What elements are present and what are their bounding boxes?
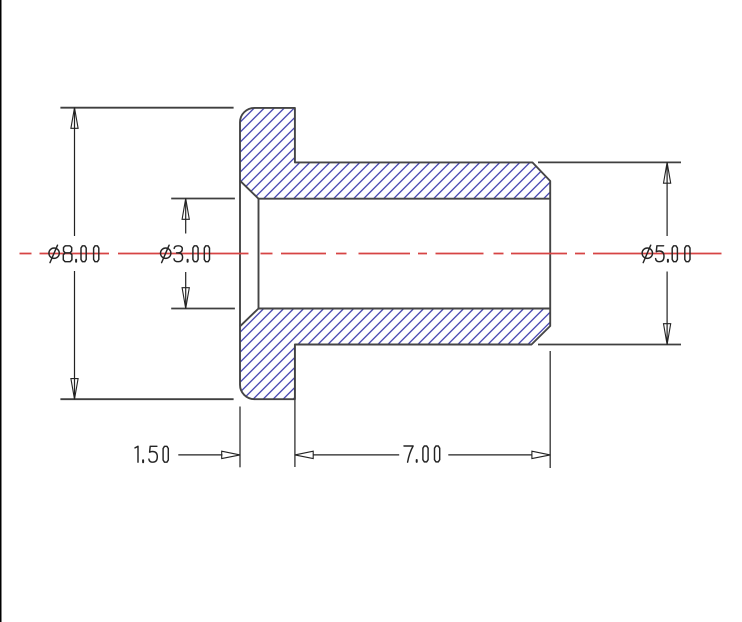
dim 7.00 extension line right (549, 351, 551, 468)
dim Ø3.00 extension line top (171, 198, 235, 200)
dim 1.50 arrow right (222, 451, 240, 458)
countersink cone top edge + bore top edge (240, 181, 550, 199)
dim Ø5.00 extension line bottom (538, 344, 681, 346)
dim 7.00 extension line left (294, 346, 296, 467)
dim Ø5.00 arrow up (664, 162, 671, 183)
dim 7.00 dimension line right segment (448, 454, 532, 456)
dim Ø5.00 dimension line (666, 162, 668, 344)
dim Ø3.00 arrow down (182, 288, 189, 309)
hatch lower wall section (240, 309, 550, 400)
dim Ø3.00 dimension line (185, 199, 187, 309)
red centerline (20, 253, 722, 255)
dim Ø3.00 text (161, 245, 210, 262)
dim Ø3.00 arrow up (182, 199, 189, 220)
hatch upper wall section (240, 108, 550, 199)
dim Ø8.00 extension line top (60, 107, 233, 109)
dim 7.00 dimension line left segment (313, 454, 399, 456)
part outer outline (240, 108, 550, 399)
dim 7.00 arrow right (532, 451, 550, 458)
dim Ø8.00 text (49, 245, 99, 262)
dim Ø8.00 extension line bottom (60, 398, 233, 400)
left window border (0, 0, 2, 622)
dim Ø5.00 text (642, 245, 690, 262)
dim Ø5.00 extension line top (538, 161, 681, 163)
dim 1.50 leader shaft (178, 454, 222, 456)
countersink cone bottom edge + bore bottom edge (240, 309, 550, 327)
dim 1.50 text (135, 446, 168, 462)
dim 7.00 arrow left (295, 451, 313, 458)
dim 1.50 extension line (239, 407, 241, 468)
dim 7.00 text (404, 446, 440, 462)
dim Ø8.00 arrow up (71, 108, 78, 129)
cone-bore transition edge (258, 199, 260, 309)
dim Ø3.00 extension line bottom (171, 308, 235, 310)
dim Ø8.00 dimension line (74, 108, 76, 400)
dim Ø5.00 arrow down (664, 324, 671, 345)
dim Ø8.00 arrow down (71, 379, 78, 400)
